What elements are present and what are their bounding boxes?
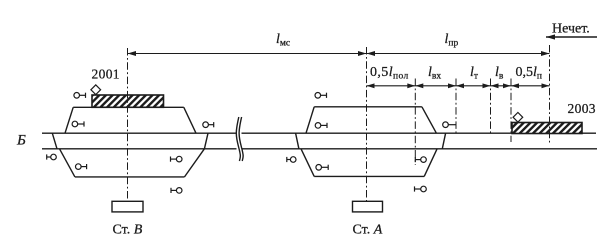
svg-text:2001: 2001	[92, 66, 120, 81]
chained dimension row (0,5l_pol | l_vx | l_t | l_v | 0,5l_p)	[367, 83, 550, 88]
signal B1 (exit, left of platform B)	[74, 93, 86, 99]
svg-text:0,5lпол: 0,5lпол	[370, 65, 409, 82]
signal A4 (above bottom siding of station A, left)	[316, 165, 328, 171]
station building A	[353, 201, 383, 212]
station B left turnout to bottom siding	[60, 149, 75, 177]
station A left crossover between main tracks	[296, 133, 299, 149]
station building B	[112, 201, 143, 212]
main track II (bottom) left segment	[42, 148, 237, 150]
signal A2 (on main track I, left throat of station A)	[315, 123, 327, 129]
signal B2 (on main track I, left throat)	[72, 121, 84, 127]
station B bottom siding track	[75, 176, 185, 178]
dimension line l_pr	[367, 51, 550, 56]
signal A3 (entrance, below main tracks left of station A)	[287, 157, 296, 163]
svg-text:Ст. А: Ст. А	[353, 223, 383, 238]
station A bottom siding track	[314, 175, 424, 177]
svg-text:Ст. В: Ст. В	[113, 223, 143, 238]
signal B5 (below main track II, right)	[171, 156, 183, 162]
boundary line l_t / l_v (dash-dot)	[490, 79, 492, 134]
svg-text:lвх: lвх	[428, 65, 441, 82]
station B right turnout from top siding	[184, 107, 196, 133]
station B left crossover between main tracks	[52, 133, 57, 149]
svg-text:lт: lт	[470, 65, 479, 82]
signal A6 (below bottom siding of station A, right)	[415, 186, 427, 192]
passenger platform near signal 2003	[512, 123, 582, 134]
passenger platform at station B (signal 2001)	[92, 95, 164, 107]
station B right crossover between main tracks	[204, 133, 208, 149]
diamond marker above platform 2003	[513, 112, 523, 122]
diamond marker above platform B	[91, 85, 101, 95]
station A right turnout from top siding	[422, 107, 437, 133]
svg-text:lмс: lмс	[276, 32, 290, 49]
signal B4 (above bottom siding, left)	[76, 164, 87, 170]
main track II (bottom) right segment	[242, 148, 598, 150]
svg-text:2003: 2003	[568, 101, 596, 116]
boundary line l_v / 0,5l_p (dash-dot)	[510, 79, 512, 143]
signal A5 (below main track II, right of station A)	[415, 157, 426, 163]
signal B3 (entrance, below main tracks far left)	[47, 154, 57, 160]
svg-text:lпр: lпр	[445, 32, 459, 49]
direction arrow "Нечет."	[546, 34, 597, 39]
break mark left curve	[236, 117, 240, 161]
signal A7 (right of station A, above main track I)	[443, 122, 456, 128]
station B right turnout from bottom siding	[185, 149, 205, 177]
svg-text:Нечет.: Нечет.	[552, 22, 590, 37]
station A top siding track	[314, 106, 422, 108]
right boundary line 0,5l_p end (dash-dot)	[549, 45, 551, 143]
station B axis (dash-dot)	[127, 48, 129, 201]
svg-text:Б: Б	[16, 133, 26, 149]
boundary line l_vx / l_t (dash-dot)	[455, 79, 457, 134]
svg-text:lв: lв	[495, 65, 504, 82]
main track I (top) right segment	[242, 132, 597, 134]
station A left turnout to bottom siding	[301, 149, 314, 177]
station A right crossover between main tracks	[442, 133, 445, 149]
station A right turnout from bottom siding	[424, 149, 437, 177]
station A axis (dash-dot)	[366, 47, 368, 201]
signal A1 (above top siding of station A, left)	[315, 93, 327, 99]
station B left turnout to top siding	[65, 107, 73, 133]
break mark right curve	[239, 117, 243, 161]
station B top siding track	[73, 106, 184, 108]
signal B7 (right of station B, above main track I)	[203, 122, 214, 128]
svg-text:0,5lп: 0,5lп	[516, 65, 542, 82]
boundary line 0,5l_pol / l_vx (dash-dot)	[414, 79, 416, 166]
station A left turnout to top siding	[306, 107, 314, 133]
signal B6 (below bottom siding, right)	[171, 188, 182, 194]
dimension line l_ms	[128, 51, 367, 56]
main track I (top) left segment	[42, 132, 236, 134]
